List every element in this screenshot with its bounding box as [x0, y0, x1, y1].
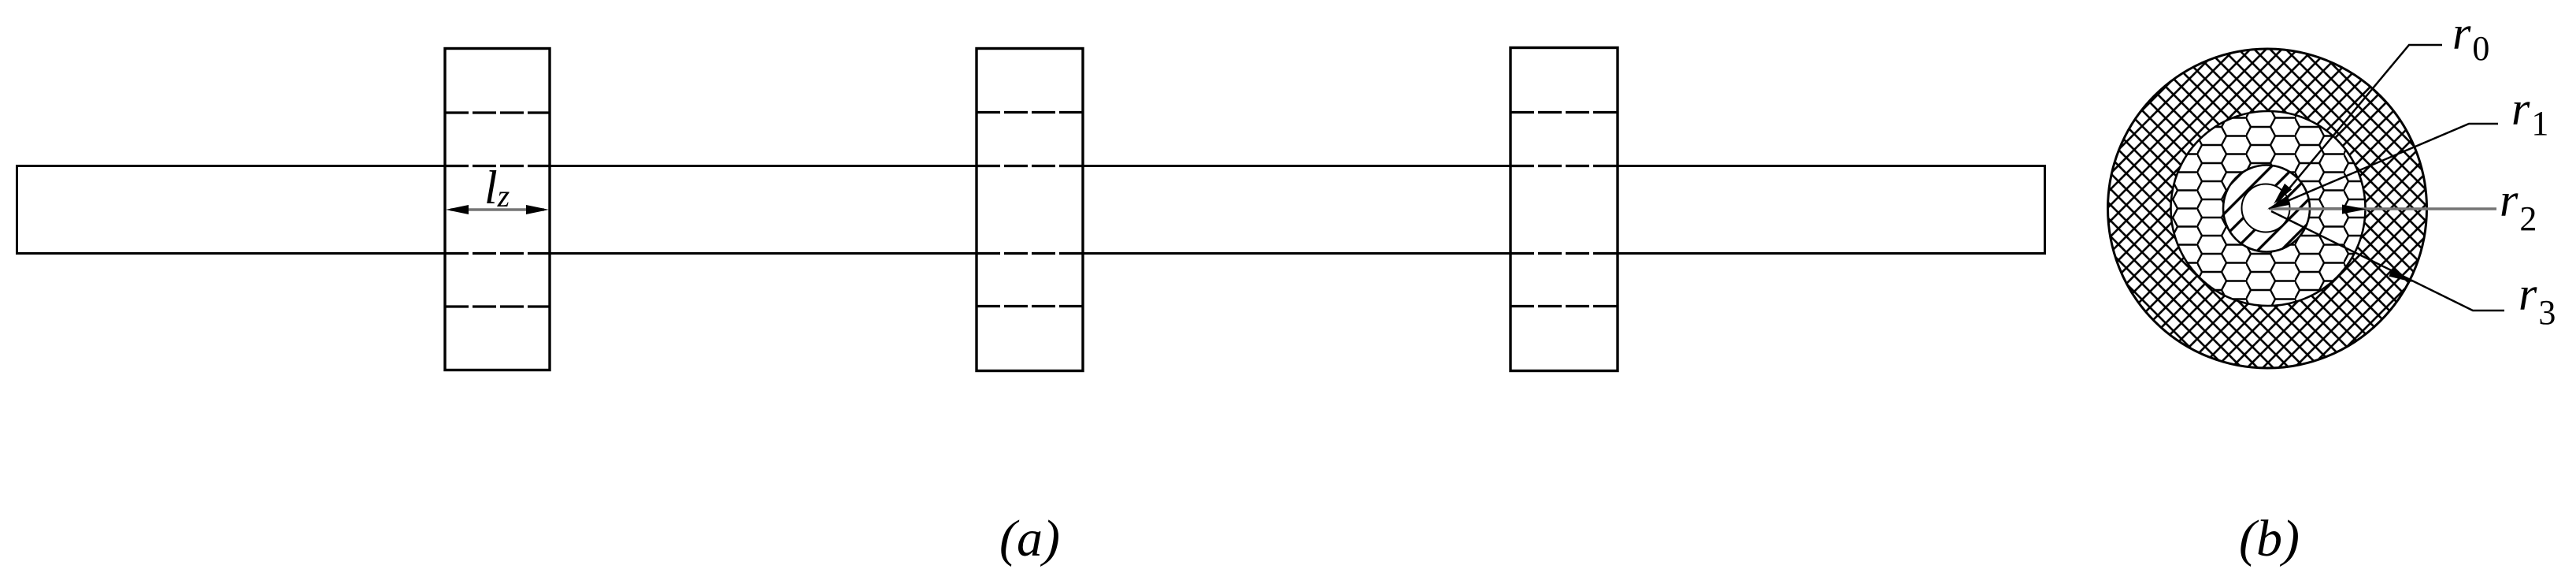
svg-text:r1: r1 — [2511, 83, 2548, 143]
svg-text:r2: r2 — [2500, 174, 2537, 238]
svg-text:r3: r3 — [2519, 268, 2556, 332]
svg-text:(a): (a) — [999, 510, 1060, 567]
svg-text:lz: lz — [484, 162, 510, 214]
svg-text:(b): (b) — [2239, 510, 2300, 567]
svg-text:r0: r0 — [2452, 7, 2489, 68]
